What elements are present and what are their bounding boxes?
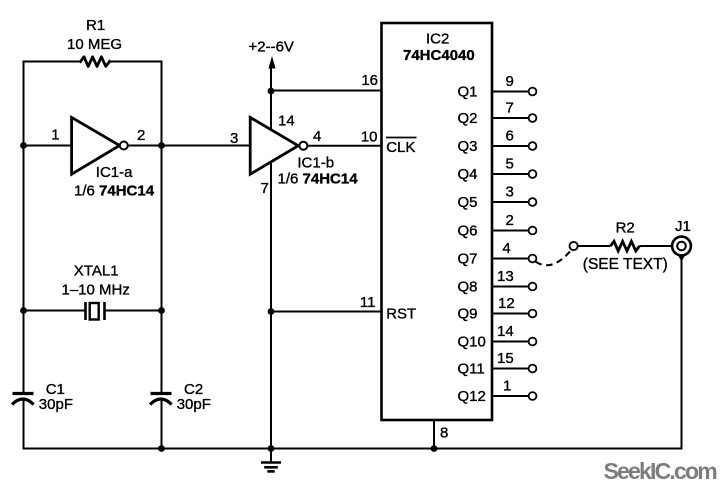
svg-text:8: 8 <box>440 425 448 442</box>
svg-text:Q11: Q11 <box>458 361 485 378</box>
svg-text:5: 5 <box>506 156 514 173</box>
svg-text:Q6: Q6 <box>458 223 478 240</box>
svg-text:IC1-b: IC1-b <box>297 155 334 172</box>
svg-text:2: 2 <box>137 127 145 144</box>
svg-text:11: 11 <box>360 294 376 311</box>
svg-text:16: 16 <box>361 72 378 89</box>
svg-text:9: 9 <box>506 73 514 90</box>
svg-text:Q1: Q1 <box>458 84 478 101</box>
svg-text:2: 2 <box>506 212 514 229</box>
svg-text:IC1-a: IC1-a <box>96 164 133 181</box>
svg-text:10: 10 <box>361 129 378 146</box>
svg-text:+2--6V: +2--6V <box>249 39 294 56</box>
svg-text:4: 4 <box>313 128 321 145</box>
svg-text:15: 15 <box>497 350 514 367</box>
svg-text:IC2: IC2 <box>426 31 449 48</box>
svg-text:Q5: Q5 <box>458 194 478 211</box>
svg-text:Q4: Q4 <box>458 166 478 183</box>
svg-text:CLK: CLK <box>386 139 415 156</box>
svg-text:30pF: 30pF <box>39 396 73 413</box>
svg-text:10 MEG: 10 MEG <box>67 36 122 53</box>
svg-text:14: 14 <box>497 323 514 340</box>
svg-text:R2: R2 <box>616 220 635 237</box>
svg-text:3: 3 <box>506 184 514 201</box>
svg-text:14: 14 <box>278 113 295 130</box>
svg-text:1/6 74HC14: 1/6 74HC14 <box>74 183 155 200</box>
svg-text:J1: J1 <box>675 218 691 235</box>
svg-text:1: 1 <box>51 127 59 144</box>
svg-text:Q8: Q8 <box>458 279 478 296</box>
svg-text:1/6 74HC14: 1/6 74HC14 <box>278 171 359 188</box>
svg-text:7: 7 <box>261 180 269 197</box>
svg-text:SeekIC.com: SeekIC.com <box>604 458 718 484</box>
svg-text:4: 4 <box>502 240 510 257</box>
svg-text:Q10: Q10 <box>458 334 486 351</box>
svg-text:XTAL1: XTAL1 <box>74 263 119 280</box>
svg-text:Q12: Q12 <box>458 388 486 405</box>
svg-text:(SEE TEXT): (SEE TEXT) <box>583 256 668 273</box>
svg-text:Q7: Q7 <box>458 251 478 268</box>
svg-text:1: 1 <box>503 378 511 395</box>
svg-text:12: 12 <box>498 295 515 312</box>
svg-text:R1: R1 <box>86 17 105 34</box>
svg-text:Q2: Q2 <box>458 110 478 127</box>
svg-text:Q3: Q3 <box>458 138 478 155</box>
svg-text:RST: RST <box>386 306 416 323</box>
svg-text:3: 3 <box>230 130 238 147</box>
svg-text:Q9: Q9 <box>458 306 478 323</box>
svg-text:7: 7 <box>506 100 514 117</box>
svg-text:1–10 MHz: 1–10 MHz <box>62 282 130 299</box>
svg-text:30pF: 30pF <box>177 396 211 413</box>
svg-text:13: 13 <box>497 268 514 285</box>
svg-text:6: 6 <box>506 128 514 145</box>
svg-text:74HC4040: 74HC4040 <box>403 47 475 64</box>
